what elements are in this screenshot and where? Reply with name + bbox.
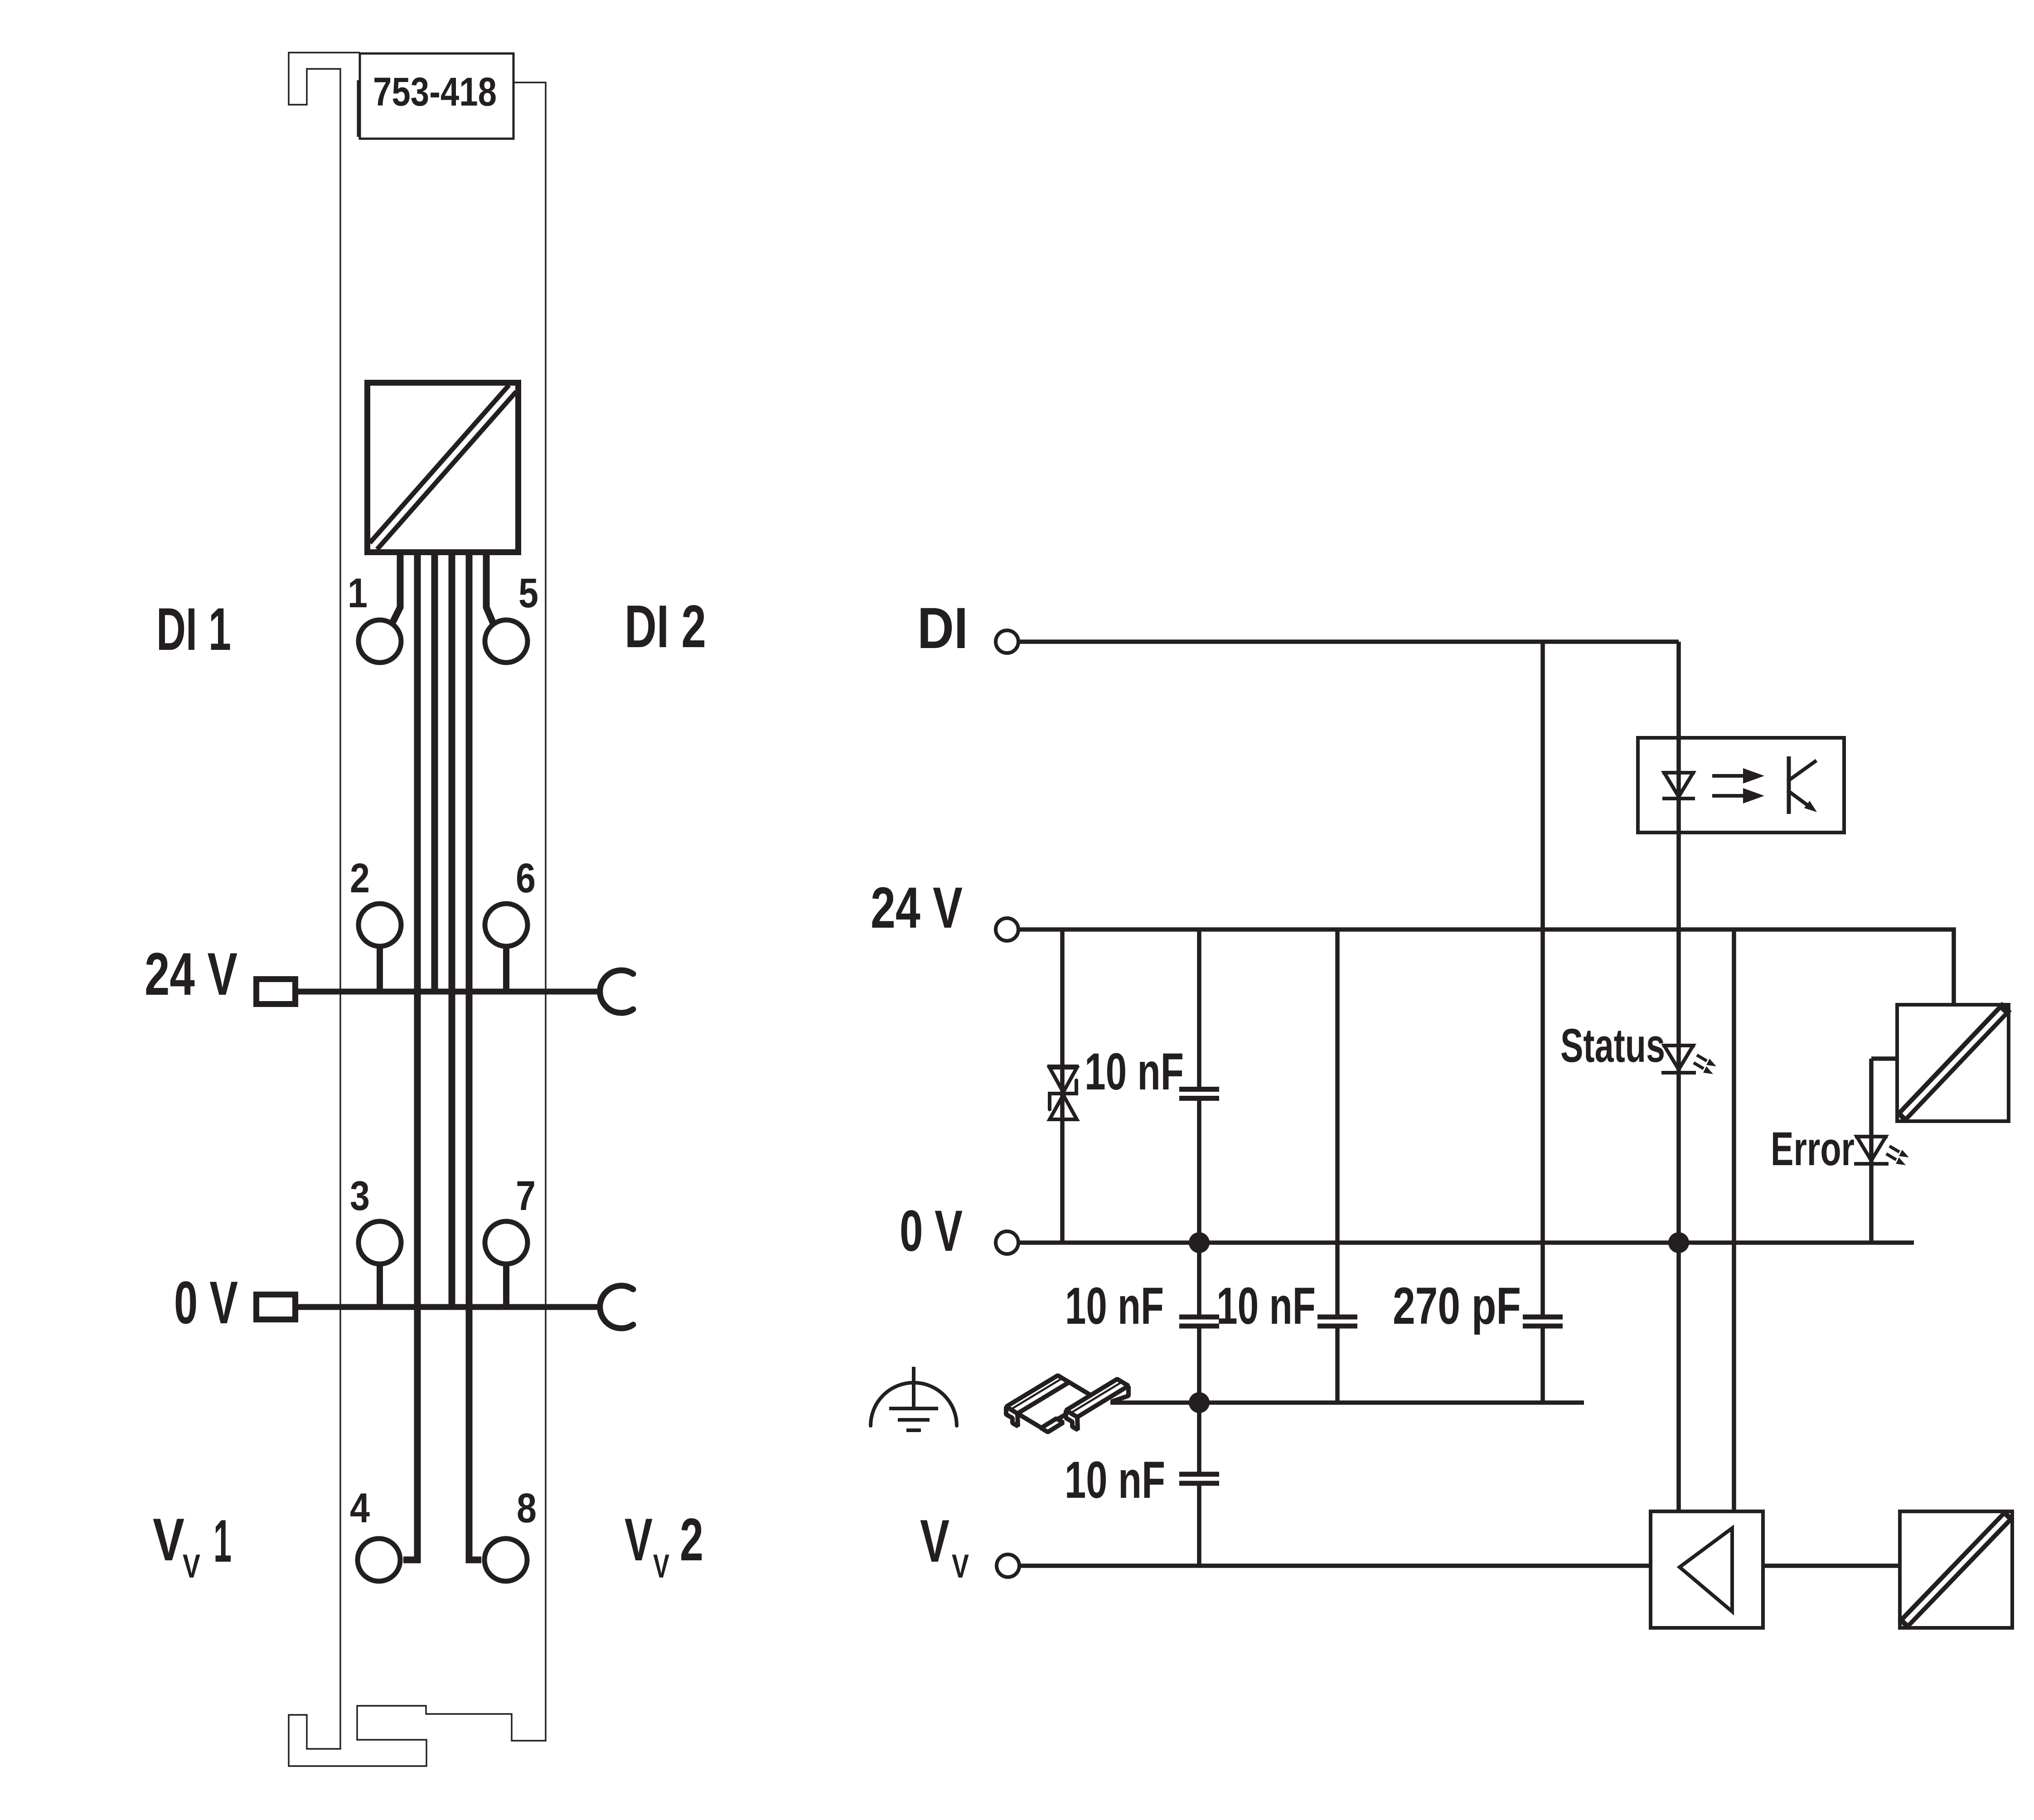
VV line [1019,1563,1900,1568]
wire DI down through optocoupler and status LED to 0V and amplifier [1676,642,1681,1511]
stem terminal2 to 24V rail [377,947,383,992]
DI terminal circle [996,630,1018,653]
left flange bend line [1009,1379,1061,1410]
right flange strip [1066,1379,1128,1417]
right flange far drop to wire [1111,1386,1128,1402]
svg-text:0 V: 0 V [174,1269,238,1336]
svg-text:DI 1: DI 1 [156,596,231,663]
wire bus pin5 [486,555,494,624]
right flange bend line [1069,1383,1121,1414]
capacitor 10nF (0V-chassis) [1179,1317,1219,1326]
DC/DC converter box top right [1900,1007,2007,1118]
power supply symbol (square with double diagonal) in module [373,388,513,546]
cap branch 0V-chassis wire [1197,1243,1201,1403]
svg-text:753-418: 753-418 [373,69,497,114]
0V connector rectangle [257,1295,295,1320]
svg-text:DI: DI [917,596,968,661]
svg-text:10 nF: 10 nF [1085,1043,1184,1101]
opto light arrows [1712,774,1745,778]
opto phototransistor [1787,756,1791,814]
svg-text:8: 8 [517,1485,537,1531]
right flange near face with lip [1066,1410,1078,1430]
cap branch chassis-VV wire [1197,1403,1201,1566]
TVS suppressor symbol [1047,1065,1079,1068]
svg-text:2: 2 [350,855,370,901]
capacitor 10nF (24V-chassis) [1317,1317,1357,1326]
svg-text:2: 2 [680,1506,703,1573]
24V terminal circle [996,918,1018,941]
stem terminal7 to 0V rail [503,1265,509,1307]
svg-text:DI 2: DI 2 [625,593,706,660]
wire bus pin2 (to 24V rail) [431,555,438,992]
svg-text:V: V [920,1508,949,1575]
DC/DC converter box bottom right [1903,1514,2010,1625]
svg-text:V: V [625,1506,653,1573]
junction dot 0V/optocoupler return [1668,1232,1689,1253]
chassis earth symbol [912,1367,915,1409]
stem terminal3 to 0V rail [377,1265,383,1307]
24V line with corner down to DC/DC box [1018,929,1954,1005]
svg-text:V: V [653,1548,669,1585]
capacitor 10nF (chassis-VV) [1179,1474,1219,1483]
24V rail [298,989,600,995]
module front-face left edge segment beside label box [357,80,359,137]
wire bus pin1 [392,555,400,623]
DI input wire [1018,639,1679,644]
wire bus pin8 (to VV2 terminal) [469,555,481,1560]
24V connector rectangle [257,979,295,1004]
mounting notch step [1041,1418,1063,1432]
svg-text:Error: Error [1771,1123,1855,1176]
optocoupler box [1638,738,1844,833]
error LED [1854,1137,1889,1164]
24V clamp contact arc [600,970,633,1013]
terminal circle 6 [485,904,528,946]
terminal circle 3 [358,1221,401,1264]
left flange near face with lip [1006,1407,1018,1426]
svg-text:10 nF: 10 nF [1065,1277,1164,1335]
svg-text:5: 5 [518,570,538,616]
error LED branch wire [1871,1059,1899,1243]
terminal circle 5 [485,620,528,663]
amplifier box [1651,1511,1763,1628]
svg-text:6: 6 [516,855,536,901]
svg-text:V: V [952,1548,969,1585]
terminal circle 2 [358,904,401,946]
capacitor 270pF (DI-chassis) [1523,1317,1563,1326]
TVS branch wire 24V to 0V [1060,929,1065,1243]
cap branch 24V-chassis wire [1335,929,1340,1403]
stem terminal6 to 24V rail [503,947,509,992]
svg-text:1: 1 [348,570,368,616]
svg-text:3: 3 [350,1173,370,1219]
svg-text:24 V: 24 V [145,941,237,1008]
wire bus pin4 (to VV1 terminal) [403,555,417,1560]
0V line [1018,1240,1914,1245]
svg-text:270 pF: 270 pF [1393,1277,1521,1335]
svg-text:1: 1 [213,1508,232,1575]
svg-text:4: 4 [350,1485,370,1531]
cap branch 24V-0V wire [1197,929,1201,1243]
chassis line [1110,1400,1584,1405]
wire bus pin3 (to 0V rail) [449,555,455,1307]
svg-text:V: V [153,1506,184,1573]
0V rail [298,1304,600,1310]
DIN rail symbol [1006,1375,1128,1432]
svg-text:V: V [183,1548,200,1585]
terminal circle 7 [485,1221,528,1264]
terminal circle 4 [358,1539,400,1581]
0V clamp contact arc [600,1286,633,1328]
left flange strip [1006,1375,1069,1413]
status LED [1661,1046,1696,1073]
terminal circle 1 [358,620,401,663]
svg-text:0 V: 0 V [900,1199,963,1263]
svg-text:10 nF: 10 nF [1216,1277,1316,1335]
junction dot chassis/cap [1189,1392,1210,1413]
svg-text:24 V: 24 V [871,876,963,940]
svg-text:Status: Status [1560,1019,1665,1072]
module outline (top hook, left edge, bottom feet, right edge) [289,53,546,1766]
24V branch down to amplifier box [1732,929,1736,1511]
junction dot 0V/cap [1189,1232,1210,1253]
label box 753-418 [360,53,513,139]
terminal circle 8 [484,1539,527,1581]
capacitor 10nF (24V-0V) [1179,1089,1219,1099]
wire 270pF branch from DI line down to chassis [1540,642,1545,1403]
VV terminal circle [997,1554,1019,1577]
svg-text:7: 7 [516,1173,536,1219]
0V terminal circle [996,1231,1018,1254]
channel floor [1017,1382,1094,1428]
opto LED triangle [1662,773,1695,799]
svg-text:10 nF: 10 nF [1065,1451,1165,1509]
